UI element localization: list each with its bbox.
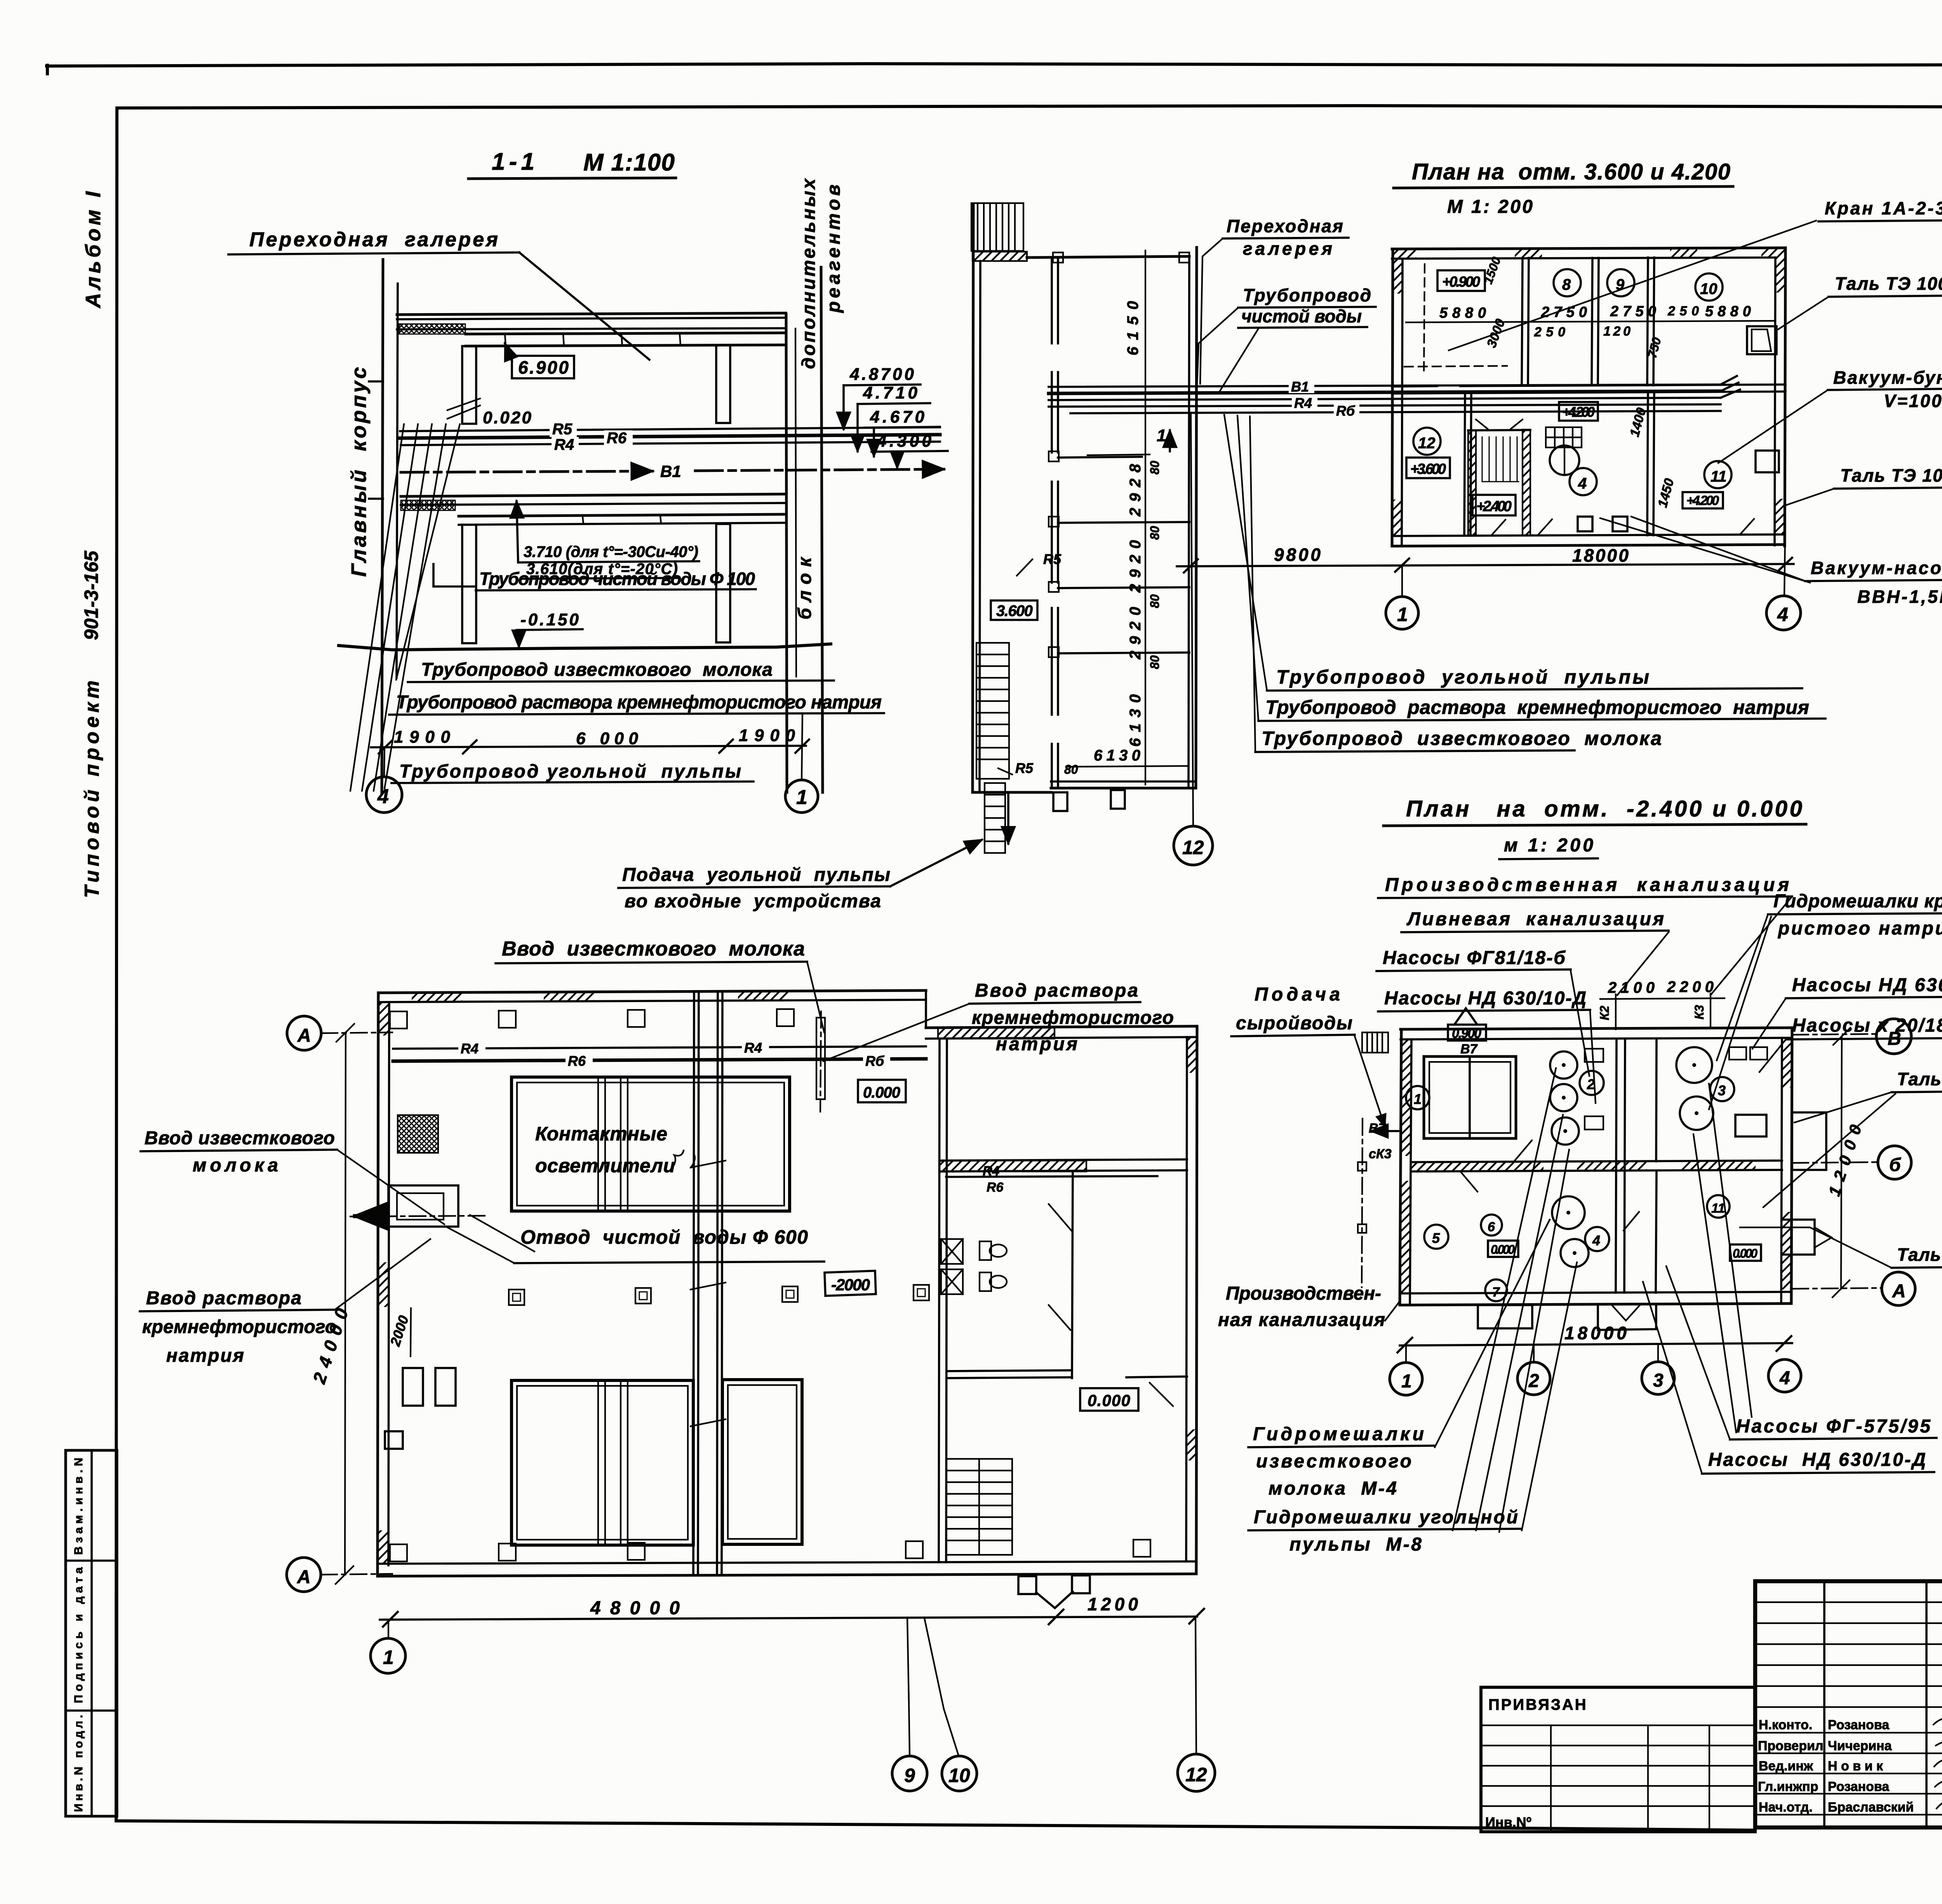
elevation box +2.400 [1472, 495, 1516, 515]
svg-text:А: А [297, 1025, 311, 1046]
wing top room walls [1027, 256, 1189, 258]
elevation arrows down [842, 385, 845, 429]
small dim 2000 [411, 1308, 411, 1356]
svg-text:Вед.инж: Вед.инж [1759, 1759, 1813, 1773]
label underline [228, 252, 519, 254]
svg-text:0.000: 0.000 [1491, 1243, 1515, 1257]
column right lower [716, 524, 730, 642]
svg-text:Розанова: Розанова [1828, 1779, 1890, 1794]
svg-text:4: 4 [1592, 1232, 1600, 1248]
svg-text:Розанова: Розанова [1828, 1718, 1890, 1732]
svg-text:V=1000л: V=1000л [1884, 391, 1942, 411]
dashed service line left [1362, 1119, 1363, 1287]
svg-text:10: 10 [948, 1765, 970, 1786]
pump circles column [1550, 1051, 1577, 1079]
svg-text:2: 2 [1528, 1371, 1539, 1391]
svg-text:Гидромешалки кремнефто-: Гидромешалки кремнефто- [1773, 891, 1942, 912]
svg-text:1: 1 [1397, 604, 1408, 625]
svg-text:Трубопровод угольной пульпы: Трубопровод угольной пульпы [1276, 666, 1649, 688]
ground line [339, 644, 831, 650]
main building inner wall line [397, 284, 398, 678]
svg-text:В1: В1 [660, 462, 681, 480]
svg-text:А: А [1892, 1281, 1906, 1302]
sheet frame left border [116, 108, 117, 1821]
svg-text:Трубопровод: Трубопровод [1243, 285, 1371, 305]
central thin rows [1755, 1601, 1942, 1603]
lower tanks left [512, 1380, 693, 1545]
elevation 6.900 [512, 356, 574, 378]
svg-text:10: 10 [1700, 280, 1718, 298]
axis dash lines right [1792, 1034, 1876, 1035]
svg-text:R4: R4 [744, 1040, 762, 1056]
big plan right section top wall with hatch [938, 1028, 1055, 1039]
svg-text:М 1:100: М 1:100 [583, 149, 675, 176]
svg-text:R6: R6 [987, 1180, 1004, 1195]
vertical wall right of centre [1656, 1039, 1657, 1161]
middle slab crosshatch [401, 500, 455, 510]
svg-text:4: 4 [1777, 604, 1788, 625]
svg-text:В7: В7 [1369, 1121, 1387, 1136]
elevation box +0.900 [1437, 270, 1485, 291]
svg-text:0.900: 0.900 [1452, 1026, 1481, 1041]
svg-text:План на отм. -2.400 и 0.00: План на отм. -2.400 и 0.000 [1406, 796, 1802, 821]
tal door niche top right [1747, 326, 1777, 354]
stair arrows dashed [1476, 419, 1488, 429]
svg-text:5: 5 [1432, 1230, 1440, 1246]
top-left tank room [1424, 1056, 1516, 1138]
bottom dimension line [380, 1617, 1197, 1620]
svg-text:1: 1 [1157, 426, 1166, 445]
svg-text:В1: В1 [1291, 379, 1309, 395]
pipe label R6 [604, 430, 633, 446]
svg-text:1: 1 [1401, 1371, 1412, 1392]
elevation box 0.000 small [1488, 1241, 1518, 1257]
wing vertical dimension chain [1145, 251, 1146, 785]
svg-text:11: 11 [1711, 1201, 1725, 1216]
room circle 4 [1585, 1227, 1609, 1251]
svg-text:R4: R4 [1294, 395, 1312, 411]
svg-text:80: 80 [1148, 461, 1162, 475]
interior column squares mid [509, 1285, 929, 1305]
svg-text:R6: R6 [568, 1053, 586, 1069]
svg-text:12: 12 [1185, 1764, 1207, 1786]
svg-text:осветлители: осветлители [535, 1155, 675, 1177]
svg-text:Rб: Rб [1336, 403, 1356, 419]
toilet cells [941, 1239, 1007, 1294]
svg-text:+0.900: +0.900 [1442, 274, 1480, 290]
middle slab lines [401, 494, 786, 496]
pipe line R4 [401, 442, 940, 445]
svg-text:R4: R4 [461, 1041, 479, 1056]
elevation box 0.000 (top) [858, 1080, 906, 1102]
main building left wall line [382, 259, 383, 793]
leader to axis circle 12 [1191, 414, 1193, 826]
svg-text:Ввод известкового: Ввод известкового [144, 1128, 335, 1149]
svg-text:250: 250 [1534, 325, 1565, 339]
stamp strip divider vertical [90, 1450, 93, 1816]
svg-text:-2000: -2000 [831, 1276, 870, 1294]
plan outer walls [1401, 1028, 1792, 1029]
svg-text:ристого натрия М-8: ристого натрия М-8 [1777, 918, 1942, 939]
svg-text:Н о в и к: Н о в и к [1828, 1759, 1883, 1773]
svg-text:9: 9 [904, 1765, 915, 1786]
svg-text:Трубопровод чистой воды Ф 100: Трубопровод чистой воды Ф 100 [479, 569, 755, 589]
upper contact tanks outer [512, 1077, 790, 1211]
room circle 2 [1580, 1071, 1604, 1095]
wall square left [385, 1431, 403, 1449]
svg-text:R6: R6 [607, 430, 627, 447]
block outer wall line [821, 267, 823, 792]
wing exit arrow bottom [1007, 794, 1009, 844]
bracket for label [433, 564, 476, 587]
svg-text:1: 1 [796, 786, 807, 809]
axis circle A [1882, 1272, 1915, 1305]
wing lower stair flight [985, 783, 1005, 853]
joint break marks [691, 1161, 726, 1426]
svg-text:6: 6 [1488, 1220, 1495, 1234]
svg-text:4.300: 4.300 [877, 432, 932, 451]
left privyazan box [1481, 1687, 1755, 1832]
axis circle 1 [1401, 567, 1403, 597]
svg-text:18000: 18000 [1564, 1323, 1627, 1343]
svg-text:Вакуум-насосы: Вакуум-насосы [1811, 558, 1942, 578]
svg-text:0.000: 0.000 [1088, 1391, 1130, 1410]
svg-text:901-3-165: 901-3-165 [80, 550, 102, 640]
svg-text:1: 1 [383, 1646, 394, 1668]
svg-text:R5: R5 [1015, 760, 1034, 776]
leader to roof [519, 252, 649, 360]
elevation box -2000 [825, 1271, 876, 1296]
vent grille grid [1546, 427, 1582, 447]
svg-text:+4.200: +4.200 [1562, 404, 1595, 420]
tank divider channels [597, 1077, 599, 1211]
sheet frame bottom line [116, 1821, 1755, 1830]
internal door arcs [1460, 1140, 1639, 1230]
svg-text:К2: К2 [1597, 1006, 1611, 1020]
wing stair grille block [971, 203, 1023, 251]
partition walls right section [947, 1370, 1072, 1371]
svg-text:Таль ТЭ 100-521: Таль ТЭ 100-521 [1840, 465, 1942, 486]
section right wall line 2 [795, 329, 796, 677]
roof slab soffit band [466, 333, 786, 334]
svg-text:1-1: 1-1 [492, 148, 534, 175]
svg-text:18000: 18000 [1572, 545, 1629, 566]
svg-text:В7: В7 [1460, 1042, 1478, 1056]
lime milk inlet assembly [388, 1185, 458, 1227]
axis circle A upper-left [287, 1016, 321, 1050]
tal target rect room 11 [1756, 451, 1779, 472]
svg-text:4: 4 [1578, 475, 1587, 492]
svg-text:0.000: 0.000 [863, 1084, 900, 1101]
pipe line R5 [400, 427, 940, 431]
wing right wall [1196, 247, 1197, 788]
elevation box 0.900 with gable [1448, 1025, 1486, 1041]
svg-text:3: 3 [1718, 1083, 1726, 1098]
svg-text:250: 250 [1667, 304, 1699, 318]
svg-text:Rб: Rб [865, 1053, 885, 1069]
door arc right section [1049, 1204, 1173, 1406]
svg-text:Таль ТЭ 0.25-511: Таль ТЭ 0.25-511 [1897, 1244, 1942, 1265]
svg-text:К3: К3 [1692, 1005, 1706, 1020]
middle slab joint ticks [517, 517, 517, 524]
sheet frame top line [118, 106, 1942, 108]
column squares along top wall [390, 1009, 794, 1029]
column left (roof to pipes) [462, 346, 476, 424]
svg-text:ПРИВЯЗАН: ПРИВЯЗАН [1488, 1696, 1588, 1713]
svg-text:80: 80 [1148, 594, 1162, 608]
pipe bundle across corridor [1049, 385, 1721, 387]
wing room divider walls [1058, 457, 1142, 458]
elevation box +4.200 room 11 [1683, 492, 1723, 508]
column squares along bottom wall [390, 1540, 1150, 1561]
svg-text:6.900: 6.900 [518, 357, 569, 378]
svg-text:во входные устройства: во входные устройства [625, 891, 881, 912]
svg-text:Подача угольной пульпы: Подача угольной пульпы [622, 865, 890, 885]
svg-text:+3.600: +3.600 [1410, 461, 1446, 477]
svg-text:Насосы НД 630/10: Насосы НД 630/10 [1792, 975, 1942, 996]
axis circle 12 below wing [1174, 826, 1213, 865]
axis circle 1 (bottom) [388, 1620, 389, 1638]
dimension line 1900-6000-1900 [371, 746, 806, 747]
svg-text:0.020: 0.020 [483, 408, 532, 427]
foundation leader diagonals [350, 424, 404, 791]
svg-text:ВВН-1,5М: ВВН-1,5М [1857, 587, 1942, 607]
squiggle marks right of label [672, 1150, 695, 1168]
stair shaft treads [1482, 437, 1519, 482]
pipe bundle labels [1289, 379, 1314, 393]
stair lower-right section [946, 1459, 1012, 1555]
svg-text:Трубопровод угольной пульпы: Трубопровод угольной пульпы [399, 761, 741, 782]
section cut mark 1 [1169, 430, 1171, 451]
big plan left wall [378, 993, 378, 1576]
big plan top wall (left part) [378, 990, 926, 993]
pipe line R6 [400, 435, 940, 438]
elevation box 0.000 room 11 [1730, 1244, 1761, 1261]
elevation box +4.200 [1559, 402, 1598, 421]
pipes into right section [946, 1176, 1157, 1177]
long cross leaders from bottom labels through plan [1453, 1068, 1569, 1532]
axis circle A lower-left [287, 1558, 321, 1592]
svg-text:Насосы х 20/18 Д-С: Насосы х 20/18 Д-С [1792, 1015, 1942, 1036]
leader from galereya to bundle [1200, 238, 1223, 384]
svg-text:4.670: 4.670 [870, 407, 925, 426]
fan circle [1550, 446, 1579, 475]
bay window right [1792, 1112, 1826, 1170]
svg-text:12: 12 [1418, 435, 1436, 452]
leader arrow up into slab [517, 501, 518, 562]
svg-text:Гл.инжпр: Гл.инжпр [1758, 1779, 1818, 1794]
column right (roof to pipes) [716, 345, 730, 423]
pipe labels [458, 1042, 486, 1056]
svg-text:12: 12 [1182, 837, 1204, 858]
svg-text:11: 11 [1711, 468, 1727, 485]
stamp strip divider rows [66, 1559, 117, 1562]
svg-text:7: 7 [1492, 1285, 1500, 1300]
svg-text:Производственная канализация: Производственная канализация [1385, 875, 1789, 895]
roof slab top lines [397, 313, 786, 315]
svg-text:R4: R4 [983, 1164, 1000, 1178]
svg-text:Н.конто.: Н.конто. [1759, 1718, 1812, 1732]
right wall door niche lower [1782, 1220, 1815, 1255]
axis leader lines [384, 747, 385, 777]
axis circle b [1878, 1146, 1911, 1179]
room circle 7 [1485, 1279, 1507, 1301]
svg-text:Насосы ФГ81/18-б: Насосы ФГ81/18-б [1383, 948, 1566, 968]
entry porch bottom [1018, 1575, 1090, 1608]
section title underline [468, 178, 676, 179]
column left lower [462, 525, 476, 643]
svg-text:ная канализация: ная канализация [1218, 1310, 1385, 1330]
vertical dim 12000 [1841, 1036, 1842, 1289]
svg-text:0.000: 0.000 [1733, 1246, 1758, 1260]
svg-text:Таль ТЭ 100-511: Таль ТЭ 100-511 [1897, 1069, 1942, 1089]
big plan right wall [1196, 1026, 1197, 1574]
svg-text:Нач.отд.: Нач.отд. [1759, 1800, 1813, 1815]
svg-text:План на отм. 3.600 и 4.200: План на отм. 3.600 и 4.200 [1412, 159, 1730, 184]
svg-text:дополнительных: дополнительных [799, 178, 819, 369]
svg-text:кремнефтористого: кремнефтористого [972, 1008, 1174, 1028]
roof insulation crosshatch block [399, 324, 465, 334]
wing corridor wall [1051, 258, 1053, 343]
lower tanks right [722, 1380, 802, 1544]
svg-text:R4: R4 [554, 436, 574, 453]
svg-text:А: А [297, 1567, 311, 1587]
middle horizontal wall [1411, 1162, 1544, 1171]
bottom-left stamp strip box [66, 1450, 117, 1816]
lower mixers [1552, 1196, 1585, 1229]
svg-text:Насосы ФГ-575/95: Насосы ФГ-575/95 [1736, 1416, 1931, 1437]
right section interior: left wall of rooms [939, 1039, 940, 1562]
pipe label R5 [550, 421, 577, 437]
svg-text:+4.200: +4.200 [1686, 493, 1719, 508]
bottom dim line [1400, 1343, 1792, 1345]
plan bottom dimension line [1177, 564, 1794, 566]
vertical wall mid [1616, 1039, 1617, 1293]
dashed partition room 8 [1424, 264, 1425, 373]
outside stair top-left [1362, 1032, 1388, 1053]
svg-text:4: 4 [1779, 1368, 1790, 1389]
axis circle 4 [366, 777, 402, 813]
svg-text:Трубопровод раствора кремнефто: Трубопровод раствора кремнефтористого на… [396, 692, 882, 713]
main upper building outer walls [1392, 248, 1785, 249]
svg-text:80: 80 [1064, 762, 1078, 776]
svg-text:3.710 (для t°=-30Cи-40°): 3.710 (для t°=-30Cи-40°) [524, 543, 698, 560]
svg-text:4.710: 4.710 [863, 383, 918, 402]
svg-text:Браславский: Браславский [1828, 1800, 1914, 1815]
elevation box 0.000 right section [1080, 1388, 1138, 1411]
svg-text:80: 80 [1148, 655, 1162, 669]
room circle 11 [1707, 1195, 1730, 1218]
wing left wall [973, 205, 973, 792]
svg-text:Кран 1А-2-3,6-3-12: Кран 1А-2-3,6-3-12 [1825, 198, 1942, 218]
room circle 3 [1710, 1077, 1734, 1101]
vertical dim 24000 [345, 1032, 346, 1575]
wing interior column marks [1049, 451, 1059, 461]
svg-text:Производствен-: Производствен- [1226, 1283, 1381, 1304]
svg-text:2: 2 [1587, 1076, 1595, 1092]
svg-text:-0.150: -0.150 [520, 610, 579, 629]
axis circles bottom row [1405, 1346, 1407, 1363]
lower rooms divider walls [1464, 392, 1465, 535]
level tick upper [369, 380, 383, 383]
svg-text:1: 1 [1414, 1091, 1422, 1107]
svg-text:реагентов: реагентов [823, 184, 844, 313]
svg-text:Трубопровод раствора кремнеф: Трубопровод раствора кремнефтористого на… [1265, 696, 1809, 718]
wing bottom wall [1051, 787, 1196, 790]
svg-text:В: В [1888, 1029, 1901, 1049]
pipe label R4 [552, 437, 579, 453]
wing stair flight [976, 643, 1009, 779]
svg-text:R5: R5 [552, 421, 573, 438]
sewer risers K2 K3 [1615, 994, 1617, 1029]
two pit rects [403, 1368, 423, 1406]
svg-text:кремнефтористого: кремнефтористого [142, 1317, 336, 1337]
svg-text:+2.400: +2.400 [1476, 498, 1512, 515]
elevation box +3.600 [1406, 458, 1450, 478]
level tick lower [369, 498, 383, 500]
small pump squares [1578, 517, 1592, 531]
title block central box [1755, 1581, 1942, 1827]
signature squiggles [1933, 1716, 1942, 1809]
central verticals [1823, 1581, 1825, 1827]
svg-text:чистой воды: чистой воды [1241, 306, 1362, 326]
svg-text:120: 120 [1603, 324, 1631, 339]
big plan bottom wall [378, 1574, 1196, 1576]
svg-text:Главный корпус: Главный корпус [347, 367, 371, 577]
room divider wall 10 [1647, 258, 1648, 385]
axis circle V [1876, 1019, 1911, 1054]
svg-text:сК3: сК3 [1369, 1147, 1392, 1161]
roof slab joint ticks [505, 335, 506, 346]
svg-text:Вакуум-бункер: Вакуум-бункер [1833, 367, 1942, 388]
small rects top right room [1729, 1047, 1746, 1060]
stair shaft walls hatched [1468, 430, 1476, 535]
grate hatch top-left [398, 1115, 438, 1153]
step connector to right section [925, 990, 927, 1028]
room circle 5 [1424, 1225, 1448, 1249]
interior dim line top rooms [1406, 321, 1774, 322]
svg-text:б: б [1889, 1155, 1901, 1175]
svg-text:Ввод известкового молока: Ввод известкового молока [502, 938, 805, 960]
pipe line B1 with arrows [401, 471, 653, 472]
sheet outer top edge line [47, 64, 1942, 66]
room divider wall 9/10 [1592, 258, 1592, 385]
corridor walls [1392, 386, 1437, 386]
svg-text:Отвод чистой воды Ф 600: Отвод чистой воды Ф 600 [520, 1226, 808, 1248]
corner wall hatch fills [1393, 249, 1416, 259]
axis circle 1 [785, 780, 818, 813]
tal block room 3 [1735, 1115, 1766, 1136]
room circle 6 [1481, 1215, 1502, 1236]
svg-text:R5: R5 [1043, 551, 1061, 567]
svg-text:8: 8 [1562, 276, 1571, 293]
svg-text:Проверил: Проверил [1758, 1739, 1824, 1753]
svg-text:Таль ТЭ 100-521: Таль ТЭ 100-521 [1835, 273, 1942, 294]
leaders from label to bundle [1197, 308, 1238, 385]
svg-text:Чичерина: Чичерина [1828, 1739, 1892, 1753]
pump small rects right of circles [1585, 1049, 1603, 1062]
svg-text:Трубопровод известкового мол: Трубопровод известкового молока [1262, 727, 1662, 749]
svg-text:Насосы НД 630/10-Д: Насосы НД 630/10-Д [1708, 1450, 1926, 1470]
elevation box 3.600 [991, 600, 1037, 620]
room circle 1 [1406, 1086, 1429, 1109]
axis circle 4 [1784, 540, 1785, 596]
riser pipe near 0.000 [820, 1011, 821, 1112]
porches bottom [1478, 1305, 1532, 1328]
svg-text:Инв.Nº: Инв.Nº [1485, 1814, 1531, 1830]
svg-text:80: 80 [1148, 526, 1162, 540]
axis circle 12 (bottom) [1195, 1617, 1196, 1753]
